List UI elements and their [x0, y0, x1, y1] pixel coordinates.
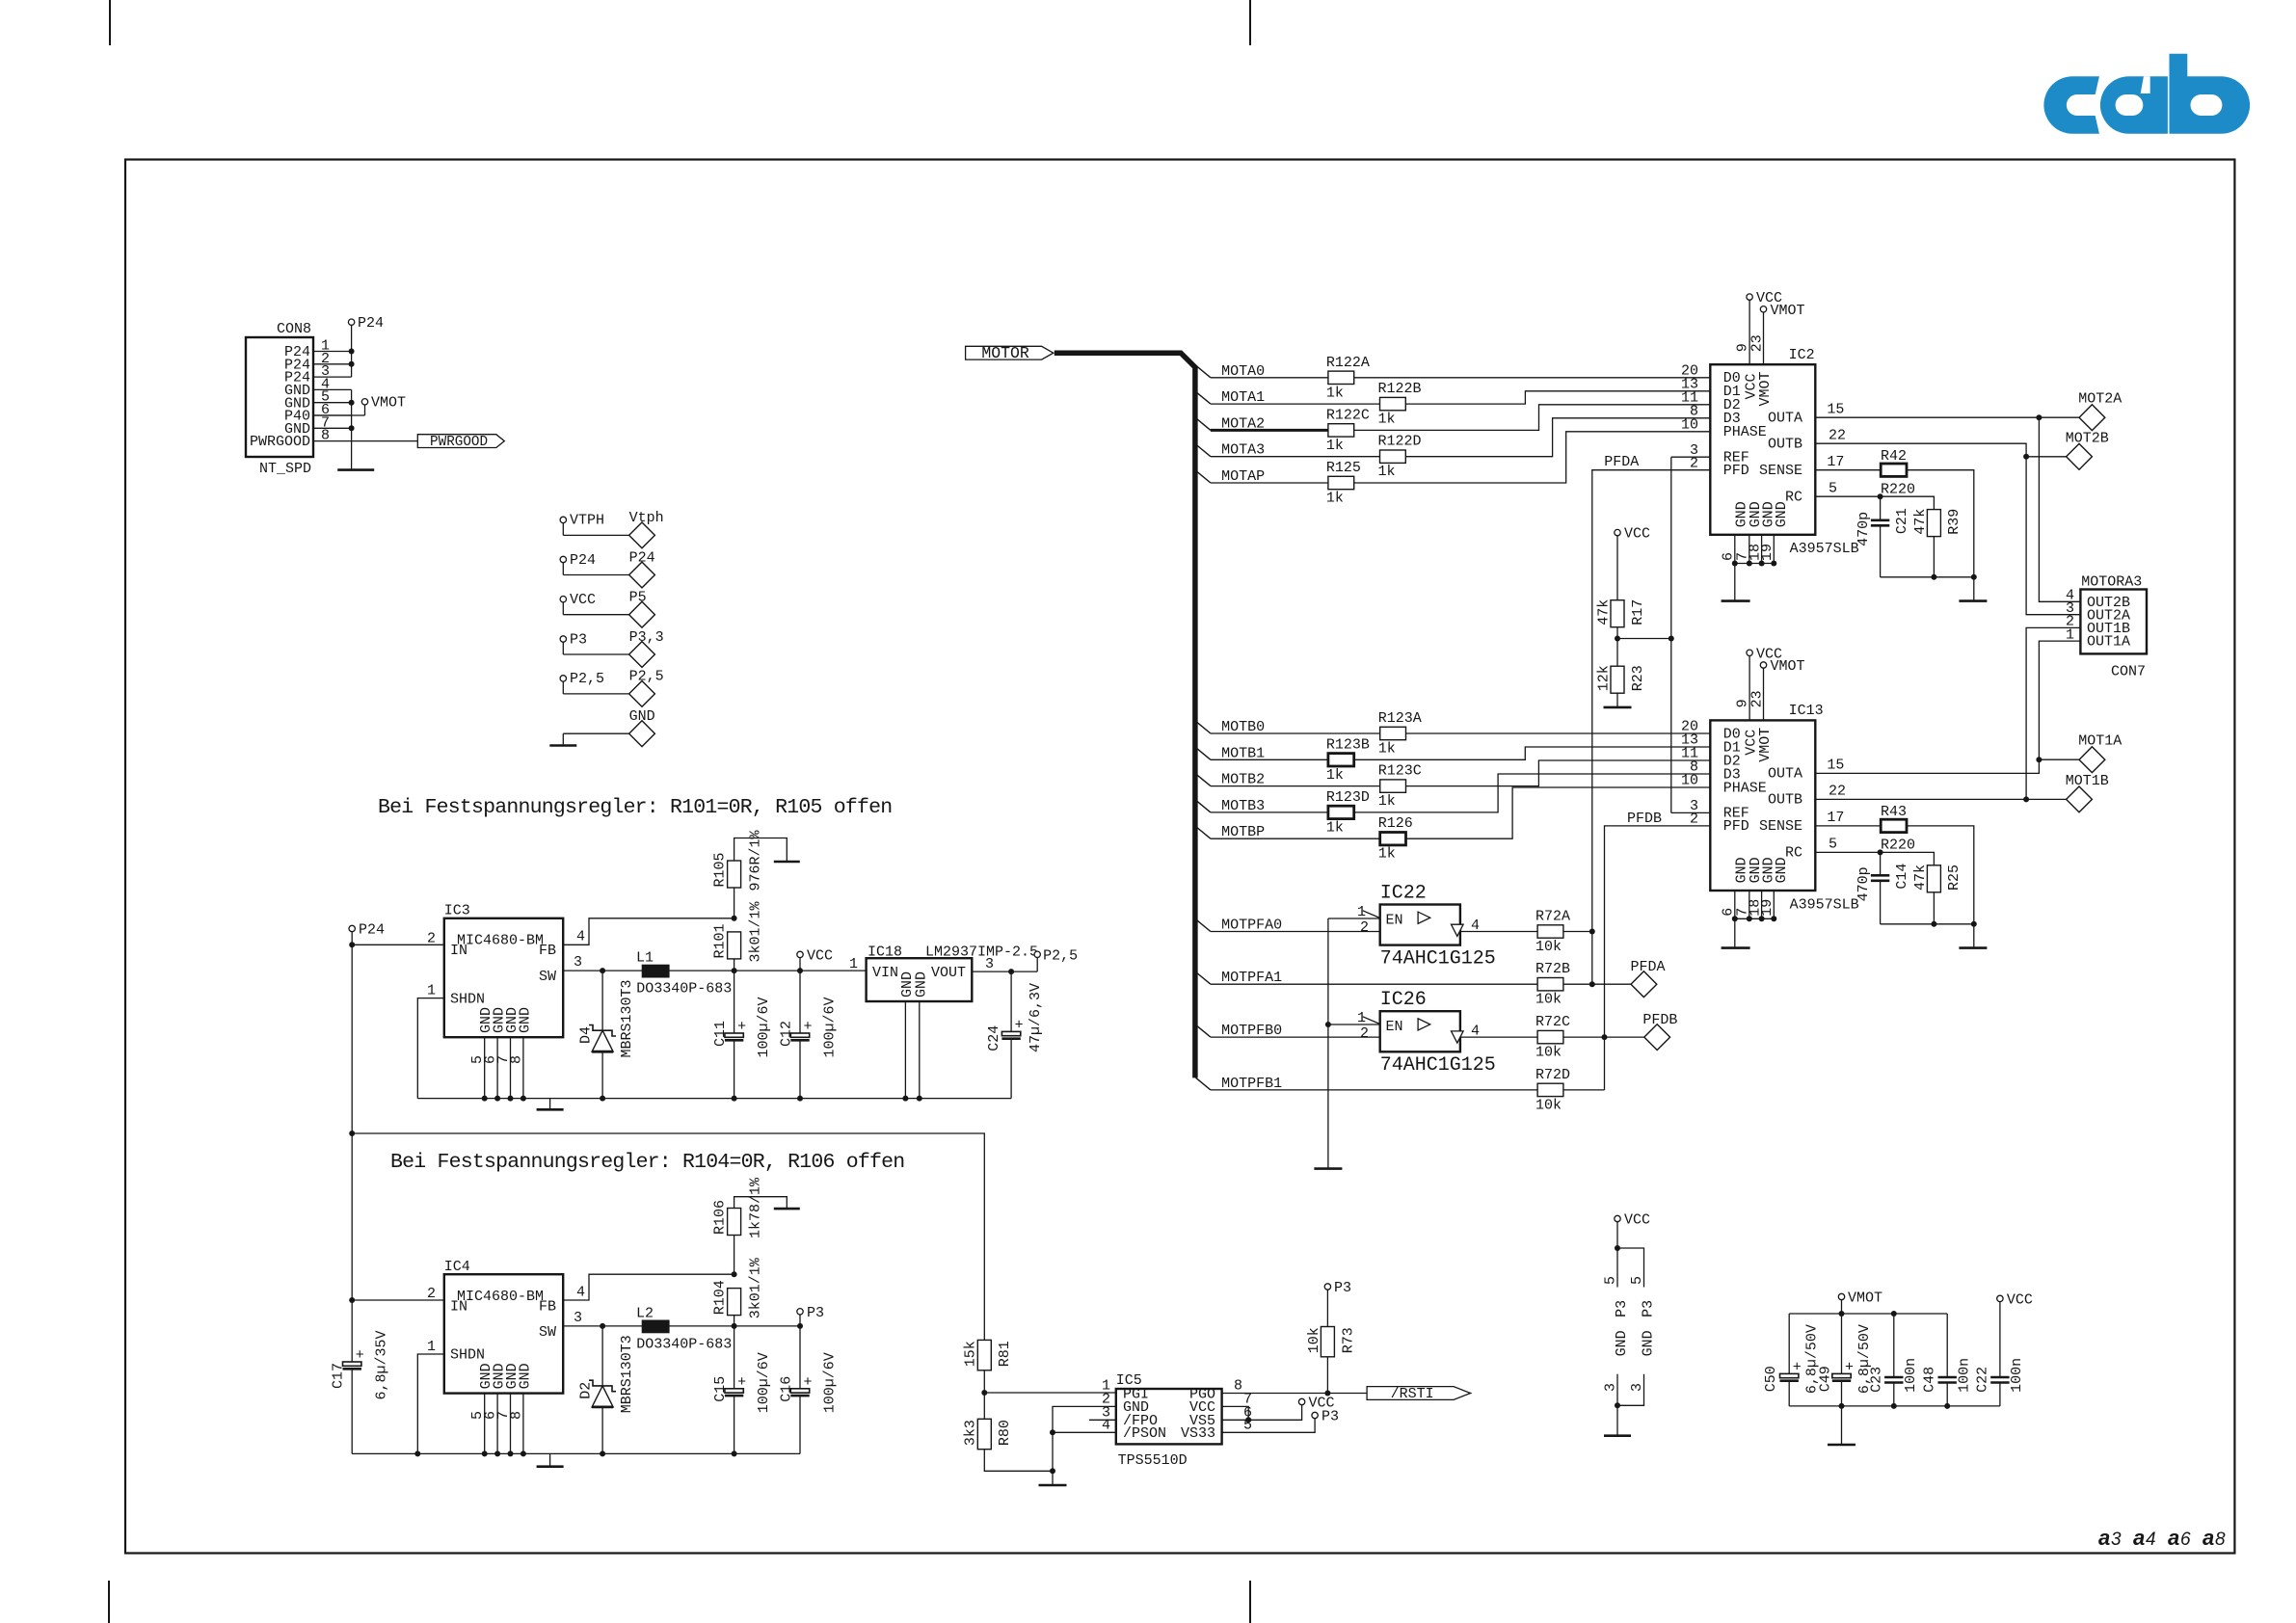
- svg-text:19: 19: [1759, 544, 1775, 561]
- node P24 feeding IC3: [349, 925, 355, 931]
- svg-text:P2,5: P2,5: [1043, 947, 1078, 964]
- wire MOTBP to IC13: [1406, 787, 1711, 838]
- wire IC2 pins 6,7,18,19 to ground: [1734, 535, 1736, 564]
- wire IC3 FB pin 4 to feedback node: [563, 918, 734, 945]
- svg-text:1: 1: [427, 983, 436, 999]
- node VMOT above cap bank: [1838, 1293, 1844, 1299]
- sheet fold tick bottom-left: [108, 1581, 110, 1623]
- net flag MOTOR: [966, 346, 1054, 359]
- svg-text:IC22: IC22: [1380, 883, 1427, 905]
- svg-text:C50: C50: [1763, 1366, 1779, 1392]
- voltage regulator IC3 MIC4680-BM: [444, 918, 563, 1037]
- capacitor C21 470p: [1880, 496, 1882, 520]
- motor driver IC13 A3957SLB: [1710, 720, 1815, 891]
- svg-text:MOTOR: MOTOR: [981, 344, 1029, 362]
- wire IC4 FB pin 4 to feedback node: [563, 1274, 734, 1300]
- svg-text:R72D: R72D: [1535, 1067, 1570, 1083]
- sheet fold tick bottom-middle: [1249, 1581, 1251, 1623]
- jumper pin 3 right: [1617, 1374, 1644, 1406]
- bus branch MOTPFB0: [1196, 1024, 1211, 1037]
- diamond symbol MOT1A: [2079, 747, 2105, 773]
- svg-text:8: 8: [508, 1055, 524, 1064]
- svg-text:GND: GND: [1640, 1330, 1656, 1356]
- wire IC2 OUTA to CON7 pin 4: [1815, 417, 2080, 601]
- svg-text:1k: 1k: [1378, 793, 1396, 810]
- svg-text:P24: P24: [358, 315, 384, 332]
- bus branch MOTB3: [1196, 800, 1211, 812]
- node P24: [560, 556, 566, 562]
- svg-text:R125: R125: [1326, 460, 1361, 476]
- wire IC3 IN pin 2: [352, 944, 444, 945]
- wire IC13 pins 6,7,18,19 to ground: [1734, 891, 1736, 918]
- svg-text:EN: EN: [1386, 913, 1403, 929]
- resistor R123C 1k: [1380, 780, 1406, 792]
- wire IC26 output pin 4: [1460, 1036, 1537, 1038]
- wire P24 rail: [351, 932, 353, 1362]
- resistor R105 976R/1%: [728, 861, 741, 888]
- svg-text:SENSE: SENSE: [1759, 818, 1802, 835]
- wire IC13 SENSE pin 17: [1815, 825, 1881, 827]
- svg-text:TPS5510D: TPS5510D: [1118, 1452, 1188, 1469]
- svg-text:/RSTI: /RSTI: [1391, 1386, 1434, 1402]
- svg-text:6,8µ/35V: 6,8µ/35V: [374, 1330, 390, 1399]
- wire MOT1B branch: [2026, 798, 2067, 800]
- diamond symbol Vtph: [629, 522, 655, 548]
- node P3 above R73: [1326, 1290, 1328, 1326]
- svg-text:IC3: IC3: [444, 903, 470, 919]
- wire GND bus of CON8: [351, 389, 353, 469]
- svg-text:47k: 47k: [1595, 599, 1612, 625]
- wire SW rail after L1: [669, 970, 867, 971]
- wire MOT2A branch: [2039, 416, 2079, 418]
- svg-text:VCC: VCC: [1624, 526, 1650, 543]
- svg-text:DO3340P-683: DO3340P-683: [636, 1336, 732, 1352]
- svg-text:PHASE: PHASE: [1723, 424, 1767, 440]
- svg-text:IC18: IC18: [868, 945, 902, 961]
- svg-text:1: 1: [1357, 1010, 1366, 1026]
- svg-text:100µ/6V: 100µ/6V: [756, 1352, 772, 1413]
- svg-text:PWRGOOD: PWRGOOD: [250, 434, 310, 450]
- svg-text:FB: FB: [539, 943, 556, 959]
- svg-text:IN: IN: [450, 1298, 467, 1315]
- wire MOTA2 to IC2: [1354, 405, 1711, 431]
- wire IC5 GND pin 2: [1053, 1406, 1116, 1471]
- svg-text:2: 2: [427, 1286, 436, 1302]
- svg-text:4: 4: [1471, 918, 1480, 934]
- node P3 at IC5: [1312, 1412, 1318, 1418]
- wire MOTAP to IC2: [1354, 432, 1711, 483]
- net tie P2,5: wire: [562, 681, 564, 694]
- resistor R17 47k: [1611, 600, 1624, 627]
- svg-text:VMOT: VMOT: [1848, 1290, 1882, 1307]
- svg-text:OUTB: OUTB: [1768, 437, 1802, 453]
- svg-text:+: +: [804, 1374, 813, 1391]
- svg-text:C15: C15: [712, 1376, 729, 1402]
- wire divider to IC5 PGI pin 1: [984, 1392, 1116, 1394]
- svg-text:23: 23: [1749, 334, 1765, 352]
- svg-text:P3: P3: [807, 1305, 824, 1321]
- svg-text:+: +: [356, 1347, 364, 1364]
- ground symbol CON8: [337, 468, 374, 471]
- svg-text:VMOT: VMOT: [1771, 658, 1805, 675]
- CON8 pin 3 P24: [313, 376, 352, 378]
- svg-text:R72B: R72B: [1535, 961, 1570, 977]
- svg-text:4: 4: [576, 1285, 585, 1301]
- svg-text:5: 5: [1629, 1276, 1645, 1285]
- svg-text:47k: 47k: [1912, 509, 1929, 535]
- wire IC5 /FPO pin 3 stub: [1089, 1419, 1116, 1421]
- svg-text:+: +: [1845, 1359, 1854, 1375]
- wire MOTA0 to IC2: [1354, 377, 1711, 379]
- svg-text:R42: R42: [1881, 448, 1907, 465]
- diamond symbol MOT2A: [2079, 405, 2105, 431]
- resistor R72A 10k: [1537, 925, 1563, 938]
- svg-text:PFD: PFD: [1723, 463, 1749, 479]
- resistor R72D 10k: [1537, 1083, 1563, 1096]
- svg-text:10k: 10k: [1535, 992, 1562, 1008]
- svg-text:10k: 10k: [1306, 1327, 1322, 1353]
- bus branch MOTAP: [1196, 470, 1211, 483]
- capacitor C22 100n: [1999, 1302, 2001, 1377]
- node VCC at IC5: [1298, 1398, 1304, 1404]
- node VTPH: [560, 517, 566, 522]
- svg-text:R220: R220: [1881, 838, 1915, 854]
- svg-text:SHDN: SHDN: [450, 991, 485, 1007]
- svg-text:R81: R81: [997, 1341, 1013, 1367]
- svg-text:R123D: R123D: [1326, 789, 1370, 806]
- svg-text:MIC4680-BM: MIC4680-BM: [457, 933, 544, 949]
- bus branch MOTB0: [1196, 721, 1211, 733]
- svg-text:VCC: VCC: [1624, 1212, 1650, 1229]
- svg-text:5: 5: [1243, 1417, 1252, 1433]
- sheet size marks a3 a4 a6 a8: [2098, 1526, 2226, 1550]
- wire sense network rail IC2: [1881, 576, 1974, 578]
- svg-text:10k: 10k: [1535, 1097, 1562, 1113]
- resistor R122A 1k: [1328, 371, 1354, 384]
- svg-text:R39: R39: [1946, 509, 1962, 535]
- CON8 pin 7 GND: [313, 427, 352, 429]
- cab logo: [2043, 54, 2250, 134]
- svg-text:R17: R17: [1630, 599, 1646, 625]
- capacitor C16 100u/6V: [799, 1326, 801, 1389]
- net PFDB rail: [1605, 826, 1711, 1090]
- wire R72A to PFDA rail: [1563, 931, 1592, 933]
- svg-text:R106: R106: [712, 1200, 729, 1235]
- sheet fold tick top-left: [109, 0, 111, 45]
- svg-text:2: 2: [1360, 1025, 1369, 1042]
- wire MOTB3 to resistor: [1211, 811, 1328, 813]
- wire MOTB2 to IC13: [1406, 760, 1711, 786]
- resistor R80 3k3: [977, 1419, 991, 1449]
- bus branch MOTPFB1: [1196, 1078, 1211, 1090]
- wire IC22 EN pin 1: [1328, 918, 1380, 919]
- voltage regulator IC4 MIC4680-BM: [444, 1274, 563, 1393]
- svg-text:DO3340P-683: DO3340P-683: [636, 981, 732, 998]
- wire IC13 OUTB to CON7 pin 2: [1815, 627, 2080, 799]
- ground symbol IC4 rail: [549, 1453, 551, 1466]
- svg-text:VMOT: VMOT: [371, 395, 406, 412]
- svg-text:L1: L1: [636, 950, 654, 967]
- svg-text:IC4: IC4: [444, 1259, 470, 1275]
- svg-text:P5: P5: [629, 590, 647, 606]
- ground symbol above R106: [774, 1208, 800, 1211]
- wire PWRGOOD pin 8: [313, 440, 417, 442]
- bus branch MOTA1: [1196, 391, 1211, 404]
- svg-text:100n: 100n: [1956, 1358, 1972, 1393]
- bus branch MOTA0: [1196, 365, 1211, 378]
- jumper pin 3 left: [1616, 1374, 1618, 1406]
- svg-text:PWRGOOD: PWRGOOD: [430, 434, 488, 450]
- node P2,5 output: [1034, 951, 1040, 957]
- CON8 pin 5 GND: [313, 402, 352, 404]
- svg-text:GND: GND: [1614, 1330, 1630, 1356]
- svg-text:1: 1: [849, 956, 858, 972]
- svg-text:3: 3: [2111, 1530, 2122, 1550]
- resistor R125 1k: [1328, 476, 1354, 489]
- svg-text:8: 8: [1234, 1378, 1242, 1395]
- svg-text:8: 8: [2215, 1530, 2226, 1550]
- wire MOTA3 to resistor: [1211, 456, 1380, 458]
- resistor R72B 10k: [1537, 978, 1563, 991]
- bus branch MOTBP: [1196, 827, 1211, 839]
- capacitor C14 470p: [1880, 852, 1882, 875]
- capacitor C49 6,8u/50V: [1841, 1314, 1843, 1373]
- svg-text:MOTORA3: MOTORA3: [2081, 573, 2142, 590]
- wire MOTB1 to IC13: [1354, 747, 1711, 759]
- svg-text:R123B: R123B: [1326, 736, 1370, 753]
- svg-text:74AHC1G125: 74AHC1G125: [1380, 1054, 1496, 1077]
- svg-text:MOT2B: MOT2B: [2066, 430, 2109, 446]
- wire MOTBP to resistor: [1211, 838, 1380, 839]
- svg-text:Bei Festspannungsregler: R101=: Bei Festspannungsregler: R101=0R, R105 o…: [378, 796, 892, 819]
- jumper pin 5 left: [1616, 1248, 1618, 1288]
- resistor R122D 1k: [1380, 450, 1406, 463]
- wire IC13 OUTA to CON7 pin 1: [1815, 641, 2080, 773]
- wire MOTPFA1 through to R72B: [1211, 983, 1537, 985]
- svg-text:P24: P24: [629, 549, 655, 566]
- svg-text:3k01/1%: 3k01/1%: [748, 900, 764, 962]
- wire cap bank bottom rail: [1789, 1405, 2000, 1407]
- svg-text:23: 23: [1749, 690, 1765, 707]
- svg-text:R122A: R122A: [1326, 355, 1370, 371]
- svg-text:P3: P3: [1640, 1300, 1656, 1317]
- wire IC4 IN pin 2: [352, 1299, 444, 1301]
- svg-text:74AHC1G125: 74AHC1G125: [1380, 948, 1496, 971]
- svg-text:1: 1: [427, 1339, 436, 1355]
- wire P24 branch to R81: [352, 1133, 984, 1340]
- svg-text:R72C: R72C: [1535, 1014, 1570, 1030]
- wire R72C to PFDB rail: [1563, 1036, 1605, 1038]
- svg-text:22: 22: [1829, 428, 1846, 444]
- wire R23 to ground: [1616, 693, 1618, 707]
- wire REF rail to IC2 and IC13: [1617, 638, 1671, 640]
- svg-text:PFDA: PFDA: [1631, 959, 1666, 975]
- svg-text:VMOT: VMOT: [1757, 728, 1774, 762]
- voltage regulator IC18 LM2937IMP-2.5: [867, 958, 973, 1001]
- wire R105 top to ground (offen): [734, 838, 788, 863]
- wire IC26 EN pin 1: [1328, 1024, 1380, 1025]
- node VCC above C22: [1997, 1295, 2003, 1301]
- wire IC3 ground rail: [417, 1098, 1011, 1100]
- wire MOTA1 to resistor: [1211, 403, 1380, 405]
- resistor R81 15k: [977, 1340, 991, 1370]
- node P2,5: [560, 676, 566, 681]
- svg-text:R122B: R122B: [1378, 381, 1422, 397]
- wire MOT1A branch: [2039, 758, 2079, 760]
- buffer IC26 74AHC1G125: [1380, 1011, 1460, 1051]
- svg-text:R104: R104: [712, 1280, 729, 1315]
- svg-text:15: 15: [1827, 758, 1844, 774]
- svg-text:NT_SPD: NT_SPD: [259, 461, 311, 477]
- ground symbol IC13 pins: [1722, 946, 1750, 949]
- node VCC above IC2: [1747, 294, 1752, 300]
- svg-text:PFDB: PFDB: [1642, 1012, 1677, 1028]
- CON8 pin 6 P40: [313, 414, 352, 416]
- svg-text:17: 17: [1827, 810, 1844, 826]
- diode D2 MBRS130T3: [601, 1326, 603, 1386]
- svg-text:a: a: [2133, 1526, 2145, 1550]
- node VCC above IC13: [1747, 650, 1752, 655]
- svg-text:P24: P24: [570, 552, 596, 569]
- CON8 pin 1 P24: [313, 351, 352, 353]
- resistor R104 3k01/1%: [728, 1289, 741, 1316]
- net tie P24: wire: [562, 563, 564, 575]
- svg-text:PFD: PFD: [1723, 818, 1749, 835]
- supervisor IC5 TPS5510D: [1116, 1389, 1222, 1444]
- motor driver IC2 A3957SLB: [1710, 364, 1815, 535]
- wire IC2 OUTB to CON7 pin 3: [1815, 443, 2080, 615]
- capacitor C12 100u/6V: [799, 971, 801, 1033]
- svg-text:5: 5: [1603, 1276, 1619, 1285]
- svg-text:3: 3: [574, 954, 582, 971]
- CON8 pin 4 GND: [313, 388, 352, 390]
- wire MOT2B branch: [2026, 456, 2067, 458]
- node VCC above jumper block: [1615, 1215, 1620, 1221]
- svg-text:Bei Festspannungsregler: R104=: Bei Festspannungsregler: R104=0R, R106 o…: [390, 1151, 904, 1174]
- wire MOTA0 to resistor: [1211, 377, 1328, 379]
- wire IC5 VCC pin 7: [1222, 1406, 1249, 1420]
- svg-text:3: 3: [1629, 1383, 1645, 1392]
- svg-text:R122C: R122C: [1326, 407, 1370, 423]
- svg-text:LM2937IMP-2.5: LM2937IMP-2.5: [925, 945, 1038, 961]
- svg-text:PHASE: PHASE: [1723, 780, 1767, 796]
- connector CON8 (NT_SPD): [246, 337, 313, 457]
- capacitor C15 100u/6V: [734, 1326, 735, 1389]
- svg-text:R220: R220: [1881, 482, 1915, 498]
- svg-text:D2: D2: [578, 1382, 595, 1399]
- bus branch MOTB1: [1196, 748, 1211, 760]
- net flag /RSTI: [1367, 1387, 1471, 1400]
- node P3: [560, 636, 566, 642]
- resistor R101 3k01/1%: [728, 932, 741, 959]
- svg-text:D4: D4: [578, 1026, 595, 1044]
- svg-text:MOT2A: MOT2A: [2078, 391, 2122, 408]
- wire R43 to sense ground: [1907, 826, 1974, 948]
- svg-text:PFDA: PFDA: [1604, 454, 1639, 470]
- svg-text:1k78/1%: 1k78/1%: [748, 1177, 764, 1238]
- net tie Vtph: wire: [562, 523, 564, 536]
- wire R80 bottom to ground: [984, 1450, 1053, 1472]
- node P24 at CON8: [351, 325, 353, 377]
- svg-text:1k: 1k: [1378, 412, 1396, 428]
- svg-text:CON8: CON8: [277, 321, 311, 337]
- svg-text:R126: R126: [1378, 815, 1413, 832]
- resistor R123B 1k: [1328, 754, 1354, 766]
- resistor R122B 1k: [1380, 397, 1406, 410]
- bus MOTOR (thick): [1055, 353, 1195, 1078]
- diamond symbol P2,5: [629, 681, 655, 707]
- svg-text:R43: R43: [1881, 804, 1907, 820]
- wire R42 to sense ground: [1907, 470, 1974, 601]
- svg-text:R123A: R123A: [1378, 710, 1422, 727]
- svg-text:VCC: VCC: [570, 592, 596, 608]
- svg-text:3k01/1%: 3k01/1%: [748, 1257, 764, 1318]
- svg-text:CON7: CON7: [2111, 664, 2146, 680]
- ground symbol below R80 node: [1052, 1471, 1054, 1485]
- svg-text:19: 19: [1759, 899, 1775, 917]
- resistor R42 R220 (sense): [1881, 464, 1907, 476]
- svg-text:5: 5: [1829, 837, 1837, 853]
- svg-text:1k: 1k: [1326, 767, 1344, 784]
- svg-text:12k: 12k: [1595, 665, 1612, 691]
- wire IC18 VOUT pin 3 to P2,5: [972, 971, 1037, 972]
- svg-text:P24: P24: [359, 922, 385, 939]
- svg-text:R80: R80: [997, 1420, 1013, 1446]
- svg-text:IN: IN: [450, 943, 467, 959]
- svg-text:IC2: IC2: [1789, 347, 1815, 363]
- inductor L1 DO3340P-683: [642, 965, 669, 976]
- ground symbol IC3 rail: [549, 1099, 551, 1110]
- svg-text:R122D: R122D: [1378, 434, 1422, 450]
- svg-text:+: +: [737, 1019, 746, 1035]
- wire IC4 ground rail: [352, 1452, 800, 1454]
- svg-text:A3957SLB: A3957SLB: [1790, 896, 1859, 913]
- net tie GND: wire: [563, 732, 628, 734]
- connector CON7 MOTORA3: [2080, 590, 2147, 654]
- svg-text:470p: 470p: [1855, 512, 1872, 546]
- svg-text:GND: GND: [517, 1363, 533, 1389]
- svg-text:100n: 100n: [1903, 1358, 1919, 1393]
- svg-text:2: 2: [1690, 455, 1698, 471]
- svg-text:SENSE: SENSE: [1759, 463, 1802, 479]
- svg-text:100µ/6V: 100µ/6V: [821, 997, 838, 1057]
- bus branch MOTA3: [1196, 444, 1211, 457]
- node VCC above R17: [1615, 529, 1620, 535]
- capacitor C17 6,8u/35V: [343, 1362, 361, 1366]
- wire IC3 SW pin 3 rail: [563, 970, 642, 971]
- node P3 buck output: [799, 1315, 801, 1326]
- wire IC3 SHDN pin 1: [417, 998, 444, 1099]
- resistor R73 10k: [1321, 1327, 1334, 1357]
- svg-text:1k: 1k: [1378, 741, 1396, 758]
- svg-text:3: 3: [985, 956, 994, 972]
- diamond symbol MOT2B: [2067, 443, 2093, 469]
- wire EN tie rail to ground: [1327, 918, 1329, 1168]
- svg-text:P3: P3: [1614, 1300, 1630, 1317]
- wire MOTB0 to resistor: [1211, 732, 1380, 734]
- svg-text:P3,3: P3,3: [629, 629, 664, 646]
- svg-text:MOT1A: MOT1A: [2078, 733, 2122, 750]
- buffer IC22 74AHC1G125: [1380, 905, 1460, 945]
- node VMOT at CON8 pin 6: [313, 414, 365, 416]
- diamond symbol PFDA: [1631, 971, 1657, 998]
- svg-text:47k: 47k: [1912, 865, 1929, 891]
- svg-text:R23: R23: [1630, 665, 1646, 691]
- svg-text:1k: 1k: [1378, 464, 1396, 480]
- resistor R123A 1k: [1380, 727, 1406, 739]
- wire IC2 SENSE pin 17: [1815, 469, 1881, 471]
- svg-text:5: 5: [1829, 481, 1837, 497]
